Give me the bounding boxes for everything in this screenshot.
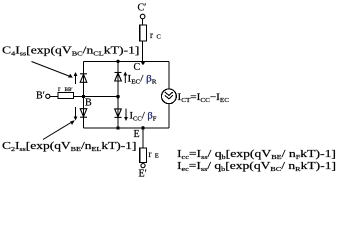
pointer arrow C2 label to D2 — [43, 120, 75, 139]
svg-text:Iec=Iss/ qb[exp(qVBC/ nRkT)-1]: Iec=Iss/ qb[exp(qVBC/ nRkT)-1] — [177, 161, 336, 173]
svg-text:C′: C′ — [138, 3, 147, 14]
svg-text:ICC/ βF: ICC/ βF — [130, 112, 158, 123]
wire right edge bottom — [168, 104, 170, 128]
wire bottom rail — [84, 127, 170, 129]
middle branch top junction dot — [116, 60, 119, 63]
svg-text:Icc=Iss/ qb[exp(qVBE/ nFkT)-1]: Icc=Iss/ qb[exp(qVBE/ nFkT)-1] — [177, 149, 336, 161]
diode D_CC (B-E main) — [115, 109, 122, 118]
wire rbb to node B — [74, 95, 84, 97]
svg-text:r: r — [150, 30, 153, 40]
wire middle branch vertical — [117, 61, 119, 128]
current arrow for D4 — [74, 72, 78, 84]
resistor rc — [140, 25, 147, 41]
current source Ict circle — [162, 89, 177, 104]
svg-text:C2Iss[exp(qVBE/nELkT)-1]: C2Iss[exp(qVBE/nELkT)-1] — [2, 141, 137, 153]
svg-text:C: C — [134, 62, 141, 73]
svg-text:r: r — [58, 85, 61, 93]
wire C' to rc — [142, 19, 144, 25]
svg-text:E: E — [134, 129, 140, 140]
middle branch junction dot at B wire — [116, 95, 120, 99]
node B junction dot — [82, 95, 86, 99]
wire top rail — [84, 60, 170, 62]
current arrow for D_CC — [124, 109, 128, 122]
svg-text:ICT=ICC−IEC: ICT=ICC−IEC — [178, 93, 230, 104]
svg-text:C: C — [157, 34, 161, 41]
wire B' to rbb — [50, 95, 58, 97]
middle branch bottom junction dot — [116, 126, 119, 129]
node C' terminal circle — [140, 14, 145, 19]
svg-text:B: B — [85, 98, 92, 109]
wire re to E' — [142, 163, 144, 164]
current arrow for D2 — [74, 107, 78, 121]
node B' terminal circle — [46, 94, 50, 98]
svg-text:IEC/ βR: IEC/ βR — [128, 75, 157, 86]
node E junction dot — [141, 126, 145, 130]
current arrow for D_EC — [123, 72, 127, 84]
resistor rbb — [58, 93, 74, 99]
svg-text:r: r — [149, 149, 152, 159]
svg-text:BB′: BB′ — [65, 87, 73, 93]
current source chevrons — [165, 92, 173, 99]
svg-text:C4Iss[exp(qVBC/nCLkT)-1]: C4Iss[exp(qVBC/nCLkT)-1] — [2, 46, 140, 58]
wire E to re — [142, 128, 144, 148]
wire left edge — [83, 61, 85, 128]
diode D2 (B-E leakage) — [80, 109, 87, 118]
pointer arrow C4 label to D4 — [32, 62, 73, 78]
wire B to middle branch — [84, 96, 119, 98]
wire right edge top — [168, 61, 170, 89]
svg-text:E′: E′ — [139, 169, 147, 180]
resistor re — [140, 148, 147, 163]
diode D4 (B-C leakage) — [80, 74, 87, 83]
wire rc to node C — [142, 41, 144, 61]
node C arrowhead — [141, 62, 145, 65]
node E' terminal circle — [141, 164, 145, 168]
diode D_EC (B-C main) — [115, 73, 122, 82]
svg-text:E: E — [155, 153, 159, 160]
svg-text:B′: B′ — [36, 91, 45, 102]
